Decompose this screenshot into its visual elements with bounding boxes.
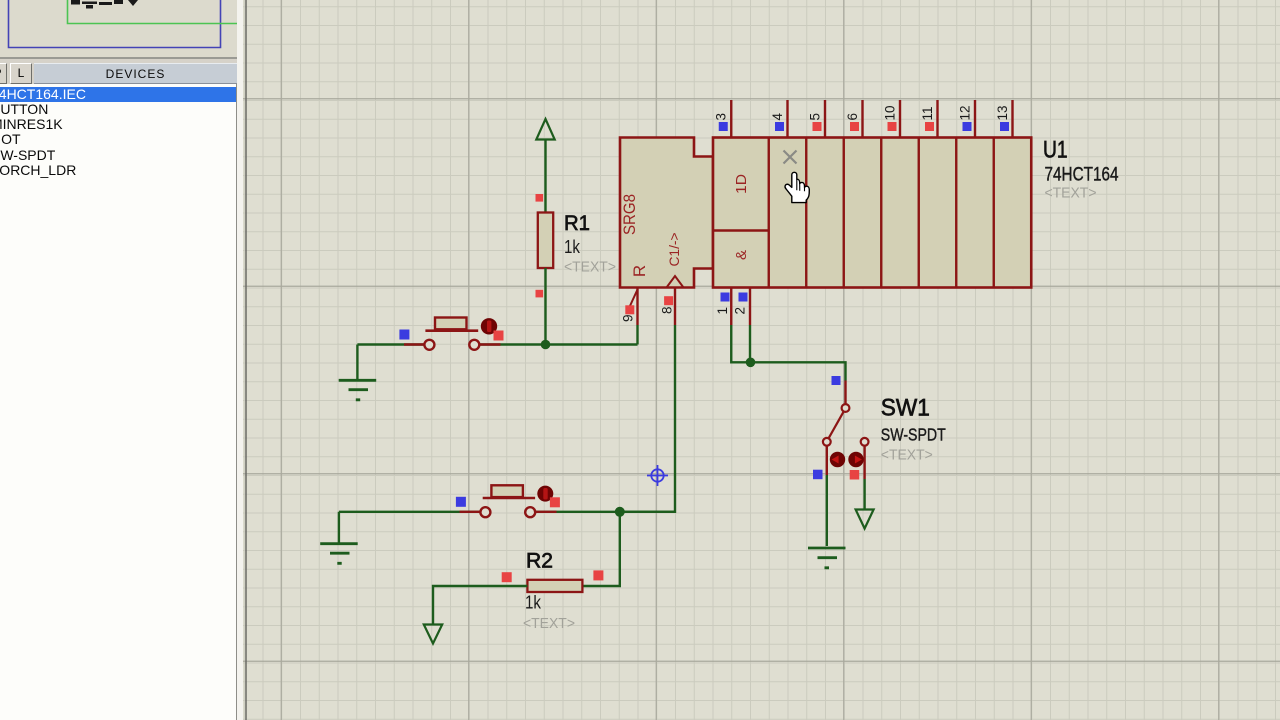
R2 marker red left bbox=[502, 572, 512, 582]
wire pin 9 down bbox=[636, 325, 638, 345]
svg-text:SW-SPDT: SW-SPDT bbox=[881, 424, 946, 444]
svg-text:&: & bbox=[733, 250, 750, 260]
svg-text:SW1: SW1 bbox=[881, 395, 930, 422]
wire power to R1 bbox=[544, 140, 546, 213]
wire B2 to ground bbox=[338, 512, 340, 543]
wire junction down to R2 bbox=[582, 512, 619, 586]
ground G2 bbox=[320, 544, 358, 564]
wire SW1 right throw to power bbox=[863, 479, 865, 510]
SW1 marker red bbox=[850, 470, 860, 480]
svg-text:1D: 1D bbox=[733, 174, 750, 194]
SW1 pole contact bbox=[842, 404, 850, 412]
svg-text:5: 5 bbox=[807, 113, 822, 121]
svg-text:SRG8: SRG8 bbox=[620, 194, 639, 235]
SW1 lever bbox=[828, 411, 844, 439]
svg-text:<TEXT>: <TEXT> bbox=[881, 447, 933, 464]
clock wedge on pin 8 bbox=[667, 276, 684, 288]
B2 marker red bbox=[550, 497, 560, 507]
R2 marker red right bbox=[593, 570, 603, 580]
button B1 interactive knob bbox=[481, 318, 497, 334]
wire B1 to ground bbox=[356, 345, 358, 381]
left object selector panel bbox=[0, 0, 237, 720]
svg-text:10: 10 bbox=[882, 105, 897, 120]
svg-text:1k: 1k bbox=[564, 237, 581, 257]
wire horizontal button B1 row bbox=[357, 343, 637, 345]
svg-text:2: 2 bbox=[733, 307, 748, 315]
svg-text:8: 8 bbox=[660, 306, 675, 314]
B1 marker blue bbox=[399, 330, 409, 340]
pin 6 bbox=[845, 100, 863, 138]
junction node R1/pin9 bbox=[541, 340, 551, 350]
wire pin 1 down/right bbox=[731, 325, 845, 381]
svg-text:6: 6 bbox=[845, 113, 860, 121]
svg-text:3: 3 bbox=[714, 113, 729, 121]
origin crosshair marker bbox=[647, 465, 668, 486]
ground G1 bbox=[339, 380, 377, 400]
cell divider lines bbox=[713, 138, 994, 288]
R1 pin marker top bbox=[536, 194, 544, 202]
button B1 contacts bbox=[424, 340, 434, 350]
SW1 throw contact left bbox=[823, 438, 831, 446]
pin 3 bbox=[714, 100, 732, 138]
svg-text:1: 1 bbox=[715, 307, 730, 315]
wire pin 8 down bbox=[620, 325, 675, 512]
button B2 actuator bar bbox=[483, 497, 535, 500]
power terminal arrow (down) at SW1 bbox=[856, 510, 874, 529]
svg-text:74HCT164: 74HCT164 bbox=[1045, 165, 1119, 186]
wire R2 left to power arrow bbox=[433, 586, 527, 625]
separator between panel and editing area bbox=[237, 0, 243, 720]
svg-text:9: 9 bbox=[621, 314, 636, 322]
resistor R2 body bbox=[527, 580, 582, 592]
wire horizontal button B2 row bbox=[339, 511, 675, 513]
pin 13 bbox=[995, 100, 1013, 138]
pin 11 bbox=[920, 100, 938, 138]
wire pin 2 down bbox=[749, 325, 751, 362]
R1 pin marker bottom bbox=[536, 290, 544, 298]
preview viewport rectangle (green) bbox=[68, 0, 238, 24]
button B2 contacts bbox=[480, 507, 490, 517]
button B2 pin stubs bbox=[460, 511, 557, 513]
pin 1 bbox=[715, 288, 731, 326]
pin 2 bbox=[733, 288, 751, 326]
svg-text:4: 4 bbox=[770, 113, 785, 121]
IC U1 register cell block bbox=[713, 138, 1031, 288]
power terminal arrow (up) above R1 bbox=[536, 119, 554, 140]
svg-text:C1/->: C1/-> bbox=[666, 233, 682, 267]
button B1 pin stubs bbox=[404, 343, 501, 345]
svg-text:13: 13 bbox=[995, 105, 1010, 120]
svg-text:U1: U1 bbox=[1043, 136, 1068, 163]
power terminal arrow (down) at R2 bbox=[424, 625, 442, 644]
junction node pin2 bbox=[746, 358, 756, 368]
no-place X mark bbox=[784, 151, 797, 164]
SW1 marker blue top bbox=[832, 376, 841, 385]
svg-text:1k: 1k bbox=[525, 593, 542, 613]
svg-text:11: 11 bbox=[920, 106, 935, 120]
button P bbox=[0, 63, 7, 84]
junction node B2/R2 bbox=[615, 507, 625, 517]
svg-text:12: 12 bbox=[957, 105, 972, 120]
button B1 cap bbox=[435, 318, 467, 330]
pin 10 bbox=[882, 100, 900, 138]
svg-text:R2: R2 bbox=[526, 549, 553, 572]
preview thumbnail marks bbox=[71, 0, 138, 9]
B1 marker red bbox=[494, 331, 504, 341]
button B2 cap bbox=[491, 485, 523, 497]
button B2 interactive knob bbox=[537, 486, 553, 502]
wire SW1 left throw to ground bbox=[826, 475, 828, 546]
svg-text:<TEXT>: <TEXT> bbox=[523, 615, 575, 632]
switch SW1 pin stub top bbox=[844, 381, 846, 405]
B2 marker blue bbox=[456, 497, 466, 507]
pin 4 bbox=[770, 100, 788, 138]
pin 5 bbox=[807, 100, 825, 138]
editor area left border bbox=[245, 0, 247, 720]
DEVICES header bbox=[34, 63, 237, 84]
button L bbox=[10, 63, 32, 84]
schematic overview preview window bbox=[0, 0, 237, 58]
svg-text:<TEXT>: <TEXT> bbox=[564, 259, 616, 276]
svg-text:<TEXT>: <TEXT> bbox=[1045, 184, 1097, 201]
button B1 actuator bar bbox=[425, 329, 478, 332]
selected device 74HCT164.IEC bbox=[0, 87, 236, 102]
preview sheet border (blue) bbox=[9, 0, 221, 48]
mouse cursor (hand) bbox=[785, 172, 809, 202]
IC U1 74HCT164 control block bbox=[620, 138, 713, 288]
device list bbox=[0, 84, 237, 720]
SW1 pin stubs bottom bbox=[827, 446, 865, 479]
SW1 throw contact right bbox=[861, 438, 869, 446]
pin 12 bbox=[957, 100, 975, 138]
wire R1 bottom to node row bbox=[544, 268, 546, 345]
SW1 marker blue bbox=[813, 470, 823, 480]
pin 9 bbox=[621, 288, 638, 326]
SW1 interactive knobs bbox=[830, 452, 845, 467]
svg-text:R: R bbox=[630, 265, 649, 277]
pin 8 bbox=[660, 288, 676, 326]
svg-text:R1: R1 bbox=[564, 212, 590, 235]
ground G3 (SW1) bbox=[808, 548, 846, 568]
resistor R1 body bbox=[538, 213, 553, 269]
